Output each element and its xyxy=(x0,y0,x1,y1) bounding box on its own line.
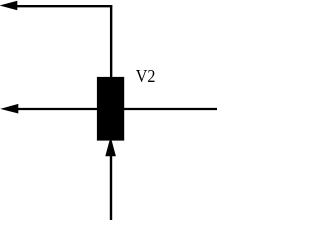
wire middle-right horizontal xyxy=(124,108,218,110)
wire bottom vertical xyxy=(110,154,112,220)
arrowhead bottom pointing up into V2 xyxy=(105,137,116,157)
wire middle-left horizontal xyxy=(13,108,98,110)
arrowhead top-left pointing left xyxy=(0,1,17,11)
arrowhead middle-left pointing left xyxy=(0,104,18,114)
svg-text:V2: V2 xyxy=(136,66,156,86)
wire top horizontal xyxy=(14,5,112,7)
wire top vertical drop xyxy=(110,5,112,78)
voltage source V2 body xyxy=(97,77,124,141)
